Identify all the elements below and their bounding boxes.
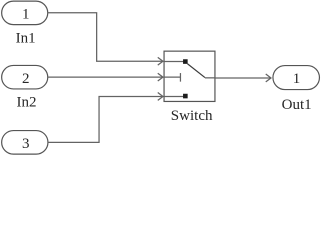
outport Out1 xyxy=(273,66,320,113)
wire In2 to Switch input 2 xyxy=(48,73,163,81)
svg-text:Switch: Switch xyxy=(171,108,213,124)
inport 3 xyxy=(2,131,48,155)
switch blade (diagonal) xyxy=(187,64,205,78)
switch input 3 internal lead xyxy=(164,95,183,97)
svg-text:Out1: Out1 xyxy=(282,97,312,113)
switch input 1 internal lead xyxy=(164,60,183,62)
switch output internal stub xyxy=(205,77,215,79)
svg-text:In1: In1 xyxy=(16,30,36,46)
svg-text:In2: In2 xyxy=(16,95,36,111)
switch contact dot top xyxy=(183,59,188,64)
switch block U1 xyxy=(164,51,215,124)
svg-text:1: 1 xyxy=(293,71,301,87)
switch input 2 internal lead (control) xyxy=(164,76,180,78)
wire inport 3 to Switch input 3 xyxy=(48,93,163,143)
inport In2 xyxy=(2,65,48,110)
switch control tick xyxy=(179,73,181,82)
wire In1 to Switch input 1 xyxy=(48,13,163,65)
wire Switch output to Out1 xyxy=(215,74,271,82)
inport In1 xyxy=(2,1,48,46)
svg-text:1: 1 xyxy=(22,6,30,22)
switch contact dot bottom xyxy=(183,94,188,99)
svg-text:3: 3 xyxy=(22,136,30,152)
svg-text:2: 2 xyxy=(22,71,30,87)
